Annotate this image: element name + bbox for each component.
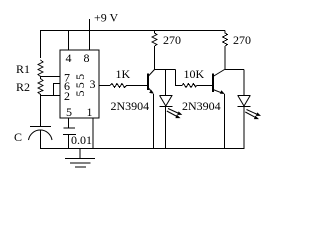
wire pin 4 drop [68,31,70,51]
resistor 270 second [223,31,228,47]
IC U1 555 timer box [60,50,99,118]
svg-text:2N3904: 2N3904 [111,99,150,113]
svg-text:4: 4 [66,51,72,65]
svg-text:5: 5 [66,105,72,119]
svg-text:270: 270 [163,33,181,47]
wire collector node horizontal [155,69,176,71]
wire 10K to Q2 base [197,85,214,87]
wire pin 3 out [99,85,110,87]
wire 1K to Q1 base [127,85,149,87]
wire 270-2 down to collector node [224,46,226,70]
svg-text:270: 270 [233,33,251,47]
wire +9V stub to pin 8 [89,19,91,50]
ground [65,149,95,168]
wire LED2 cathode down [243,107,245,150]
wire 0.01 to rail [68,135,70,149]
resistor R2 [38,77,43,96]
svg-text:555: 555 [73,72,87,97]
wire pin 5 down [68,118,70,128]
svg-text:0.01: 0.01 [71,133,92,147]
wire Q2 collector node horizontal [225,69,245,71]
transistor Q2 2N3904 [213,70,225,95]
resistor 1K [110,84,127,88]
resistor 10K [182,84,197,88]
resistor R1 [38,60,43,77]
wire Q1 emitter down [153,94,155,149]
wire corner down to 10K [176,70,183,86]
svg-text:1K: 1K [116,67,131,81]
svg-text:10K: 10K [184,67,205,81]
wire Q2 emitter down [224,94,226,149]
svg-text:2: 2 [64,89,70,103]
wire LED1 anode drop [165,70,167,96]
resistor 270 first [152,31,157,47]
wire left rail down to R1 [40,31,42,59]
transistor Q1 2N3904 [148,70,155,94]
svg-text:1: 1 [87,105,93,119]
svg-text:R1: R1 [16,62,30,76]
wire pin 2 net (R2 bottom to pin 2) [41,95,61,97]
node R1-R2 junction to pin 7 wire [41,76,61,78]
svg-text:+9 V: +9 V [94,11,119,25]
svg-text:3: 3 [90,77,96,91]
wire pin 6 jog [54,84,61,96]
wire top +9V rail [40,30,225,32]
capacitor 0.01 [63,128,76,135]
capacitor C [29,127,53,141]
svg-text:R2: R2 [16,80,30,94]
wire C bottom stem [40,130,42,149]
wire bottom ground rail [40,148,244,150]
svg-text:8: 8 [84,51,90,65]
wire 270 to collector node [154,46,156,70]
wire LED2 anode drop [243,70,245,96]
svg-text:2N3904: 2N3904 [182,99,221,113]
wire R2 bottom down to capacitor C [40,96,42,127]
LED D2 [238,96,262,120]
LED D1 [159,96,182,119]
wire LED1 cathode down [165,107,167,150]
wire pin 1 down [92,118,94,149]
svg-text:C: C [14,130,22,144]
